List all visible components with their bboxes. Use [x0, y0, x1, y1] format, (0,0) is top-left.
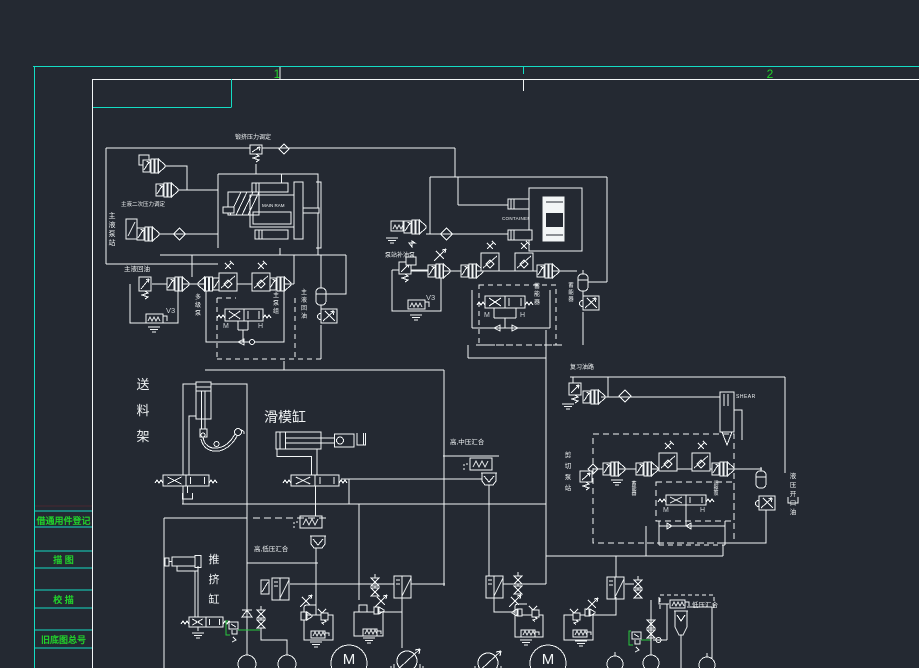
x-valve small XVa: [261, 580, 269, 594]
DV_E port right: [316, 449, 318, 475]
table row line 4: [35, 567, 92, 569]
svg-text:2: 2: [767, 67, 774, 81]
wire press down left: [279, 248, 281, 255]
svg-text:M: M: [663, 507, 669, 514]
big box C top: [430, 176, 607, 178]
wire y396: [601, 396, 720, 398]
svg-text:蓄: 蓄: [568, 281, 574, 289]
cross arrow above P9: [436, 251, 444, 259]
zone tick white below frame: [523, 79, 525, 91]
double box F5: [607, 577, 624, 599]
svg-text:液: 液: [301, 296, 307, 304]
wire x359: [358, 504, 360, 600]
accumulator AC2: [578, 270, 588, 291]
pump P1: [139, 155, 165, 173]
wire y563: [247, 562, 318, 564]
strainer low: [674, 611, 688, 635]
svg-text:器: 器: [631, 491, 636, 497]
svg-text:站: 站: [109, 238, 116, 247]
title box bottom edge (cyan): [93, 107, 232, 109]
box B4: [515, 615, 543, 637]
dashed y518: [253, 517, 327, 519]
svg-text:泵: 泵: [565, 473, 572, 481]
B3 cross arrow: [377, 597, 385, 605]
flow arrow B1: [494, 325, 500, 331]
tank sym right: [788, 497, 798, 503]
container box: [529, 188, 582, 251]
svg-text:M: M: [343, 651, 356, 668]
table dim fold mark: [35, 505, 92, 507]
svg-text:压: 压: [790, 481, 797, 489]
svg-text:料: 料: [136, 403, 149, 418]
slide clamp circle: [337, 437, 344, 444]
solenoid SW4: [311, 631, 329, 638]
svg-text:多: 多: [195, 293, 201, 301]
wire right x785: [784, 377, 786, 473]
svg-text:推: 推: [209, 552, 220, 566]
double box F2: [272, 578, 289, 600]
svg-text:泵: 泵: [195, 310, 201, 317]
flow arrow on return: [238, 339, 244, 345]
feeder arm joint: [214, 442, 219, 447]
svg-text:旧底图总号: 旧底图总号: [41, 634, 86, 645]
wire P1 out: [165, 166, 187, 190]
feeder arm: [203, 434, 235, 448]
svg-text:缸: 缸: [209, 592, 220, 606]
DV_C stub: [685, 505, 687, 526]
inner box bottom dashed: [659, 544, 725, 546]
shear stripes: [723, 394, 725, 406]
flow circle on return: [250, 340, 255, 345]
table row line 8: [35, 647, 92, 649]
wire y556 long: [546, 555, 723, 557]
press platen: [294, 182, 303, 239]
solid y518: [164, 517, 247, 519]
directional valve DV_B: [477, 296, 533, 308]
green symbol G1: [226, 621, 238, 642]
svg-text:主液回油: 主液回油: [124, 264, 150, 273]
svg-text:泵: 泵: [713, 491, 718, 497]
svg-text:站: 站: [565, 483, 572, 492]
pump circle PC2: [278, 655, 296, 668]
pump P15: [712, 462, 734, 476]
cyan outer border top: [33, 66, 919, 68]
dashed bottom y345: [476, 344, 563, 346]
shear blade: [722, 432, 732, 445]
DV_D tank: [183, 493, 193, 499]
wire bottom y264: [106, 263, 218, 265]
variable pump VP1: [391, 649, 423, 668]
wire x402 down: [401, 598, 403, 648]
wire inner y526: [659, 525, 725, 527]
press main ram: [250, 195, 294, 227]
feeder port wire: [189, 416, 196, 476]
ground B2: [310, 641, 322, 643]
ground under SW3: [410, 314, 422, 316]
wire press down right: [317, 248, 319, 255]
flow arrows inner box: [667, 523, 691, 529]
ground C1: [562, 403, 574, 405]
push cyl cap: [195, 556, 201, 568]
svg-text:开: 开: [790, 490, 797, 498]
svg-text:蓄: 蓄: [534, 282, 540, 290]
ground B1: [386, 237, 398, 239]
svg-text:主: 主: [109, 211, 116, 220]
wire x349 drop: [348, 479, 350, 504]
wire P2 out: [178, 189, 218, 191]
box B3: [354, 612, 383, 636]
feeder clevis pin: [201, 433, 205, 437]
x-pair XP2: [371, 574, 379, 596]
svg-text:主: 主: [273, 291, 279, 299]
pump circle PC4: [699, 657, 715, 668]
press upper cyl stripes: [255, 183, 257, 192]
B4 cross arrow: [511, 597, 519, 605]
lower ram cylinder: [508, 230, 532, 240]
svg-text:器: 器: [568, 296, 574, 303]
dashed box C outer: [593, 434, 734, 543]
feeder cylinder: [196, 382, 211, 419]
zone tick cyan: [523, 67, 525, 74]
check diamond D2: [174, 228, 186, 240]
pump circle PC5: [607, 656, 623, 668]
feeder arm lower: [201, 436, 237, 451]
push cyl rod: [167, 561, 172, 563]
solenoid valve SW1: [146, 314, 167, 323]
press stem: [303, 208, 319, 213]
x-pair XP4: [634, 576, 642, 598]
wire bus y284: [152, 283, 294, 285]
wire x723 up: [722, 545, 724, 556]
double box F4: [486, 576, 503, 598]
inner box right: [724, 521, 726, 545]
wire x458 down: [457, 177, 459, 205]
B5 mini pump: [585, 609, 589, 616]
svg-text:液: 液: [790, 471, 797, 480]
wire bus y271: [411, 270, 577, 272]
x-valve XV3: [756, 496, 776, 510]
throttle T4: [692, 441, 710, 471]
B5 cross arrow: [588, 600, 596, 608]
x-valve XV2: [580, 296, 600, 310]
svg-text:M: M: [223, 323, 229, 330]
big box C right: [606, 177, 608, 282]
B2 mini pump: [301, 612, 306, 620]
table row line 2: [35, 526, 92, 528]
wire B3-F3col: [383, 611, 402, 613]
B4 funnel valve: [529, 606, 537, 610]
svg-text:锻挤压力调定: 锻挤压力调定: [235, 133, 271, 141]
wire x712 down: [711, 607, 713, 668]
push cyl bracket: [177, 566, 198, 617]
solid return box: [206, 288, 284, 342]
container line bottom: [546, 234, 563, 236]
relief valve RV1: [250, 145, 262, 162]
slide rod: [286, 437, 334, 439]
svg-text:送: 送: [136, 377, 149, 392]
press die hatch: [228, 192, 259, 215]
motor M2: [522, 645, 574, 668]
wire x667: [667, 604, 669, 640]
wire x247 long: [246, 504, 248, 656]
svg-text:能: 能: [534, 290, 540, 298]
press rod: [223, 207, 234, 213]
svg-text:回: 回: [301, 305, 307, 312]
x-valve XV1: [318, 309, 338, 323]
feeder piston rod: [201, 391, 203, 429]
wire solW left hook: [659, 597, 669, 604]
wire F4 to B4: [494, 597, 515, 612]
svg-text:高,低压汇合: 高,低压汇合: [254, 544, 289, 553]
ground DV_F: [192, 632, 204, 634]
press lower cyl stripes: [258, 230, 260, 239]
svg-text:M: M: [542, 651, 555, 668]
wire x651: [650, 600, 652, 655]
B2 loop wire: [304, 605, 316, 614]
table row line 5: [35, 589, 92, 591]
relief valve RV3: [399, 262, 411, 282]
check diamond D4: [619, 390, 631, 402]
solW low: [670, 600, 689, 608]
wire x546 down: [545, 504, 547, 584]
pump P4: [167, 277, 189, 291]
wire P3 out: [159, 233, 218, 235]
container line top: [546, 201, 563, 203]
solid return box B: [472, 290, 550, 328]
svg-text:H: H: [258, 323, 263, 330]
wire bus y469: [593, 468, 762, 470]
svg-text:剪: 剪: [565, 450, 572, 459]
slide hook: [357, 433, 366, 445]
DV_A stubs: [238, 321, 248, 342]
svg-text:复习油路: 复习油路: [570, 363, 594, 371]
green wire 2: [641, 639, 651, 641]
filter FX2: [252, 261, 270, 291]
wire y640 link: [653, 639, 667, 641]
pump P11: [537, 264, 559, 278]
svg-text:泵: 泵: [273, 300, 279, 307]
pump P5: [198, 277, 220, 291]
shear cylinder: [720, 392, 734, 432]
pump P6: [269, 277, 291, 291]
group box left stub: [191, 255, 193, 277]
box B2: [304, 615, 333, 640]
motor M1: [323, 645, 375, 668]
pump P9: [428, 264, 450, 278]
svg-text:器: 器: [534, 299, 540, 306]
feeder box E: [183, 384, 247, 504]
svg-text:低压汇合: 低压汇合: [692, 600, 719, 609]
diamond on x247: [242, 610, 252, 617]
throttle T2: [515, 241, 533, 271]
box B5: [564, 615, 593, 640]
svg-text:级: 级: [195, 301, 201, 309]
wire x680 down: [680, 635, 682, 668]
svg-text:液: 液: [109, 220, 116, 229]
wire y479 from valve: [341, 478, 482, 480]
relief valve RV2: [139, 277, 151, 299]
wire XV2 down: [582, 312, 584, 345]
B5 funnel valve: [570, 609, 578, 613]
solenoid SW5: [363, 629, 381, 636]
wire x316 seg: [315, 548, 317, 615]
wire P8 stub: [409, 241, 415, 247]
svg-text:油: 油: [790, 507, 797, 516]
wire y456: [443, 455, 499, 457]
green symbol G2: [629, 631, 641, 652]
svg-text:挤: 挤: [209, 572, 220, 586]
feeder cyl stripes: [196, 386, 211, 388]
svg-text:滑模缸: 滑模缸: [264, 409, 306, 425]
wire left edge x106: [105, 148, 107, 264]
flow arrow B2: [512, 325, 518, 331]
solenoid SW6: [521, 630, 539, 637]
B2 funnel valve: [318, 609, 326, 613]
press upper cylinder: [252, 183, 288, 192]
wire F5 to B5: [593, 597, 616, 615]
pump P14: [636, 462, 658, 476]
DV_E stub down: [315, 486, 317, 516]
solenoid SW7: [573, 630, 591, 637]
seq valve SQ1: [294, 516, 322, 528]
dashed box C inner: [656, 482, 734, 521]
wire x492: [488, 503, 490, 576]
directional valve DV_C: [658, 495, 714, 505]
B4 loop wire: [515, 604, 527, 614]
bottom box left x164: [163, 518, 165, 668]
white frame top: [92, 79, 919, 81]
svg-text:主液二次压力调定: 主液二次压力调定: [121, 200, 166, 208]
wire x646 drop: [645, 526, 647, 556]
svg-text:高,中压汇合: 高,中压汇合: [450, 437, 485, 446]
pump P10: [461, 264, 483, 278]
wire y358: [468, 357, 546, 359]
svg-text:描 图: 描 图: [53, 554, 74, 565]
container slot: [546, 213, 563, 227]
filter FX1: [219, 261, 237, 291]
white frame left: [92, 79, 94, 668]
svg-text:主: 主: [301, 288, 307, 296]
wire x444 down: [443, 370, 445, 586]
wire AC2-XV2: [582, 291, 584, 296]
table row line 6: [35, 607, 92, 609]
cyan outer border left: [34, 66, 36, 668]
wire F5 link: [625, 583, 634, 585]
wire x455 down: [454, 148, 456, 177]
wire top y377: [570, 376, 785, 378]
pump circle PC3: [643, 655, 659, 668]
B2 cross arrow: [302, 597, 310, 605]
feeder clevis: [200, 429, 207, 437]
press lower cylinder: [255, 230, 288, 239]
upper ram cylinder: [508, 199, 532, 209]
ground under SW1: [148, 326, 160, 328]
wire RV1 down: [255, 164, 257, 174]
big box C left: [429, 177, 431, 234]
feeder arm hook: [241, 430, 244, 434]
wire RV4: [572, 377, 574, 383]
svg-text:切: 切: [565, 462, 572, 470]
wire shear right: [734, 410, 742, 440]
slide cylinder: [276, 432, 321, 449]
wire x468: [467, 345, 469, 358]
ground B4: [520, 639, 532, 641]
V3 box 2: [392, 270, 441, 311]
wire x346 loop: [321, 255, 346, 294]
svg-text:H: H: [520, 312, 525, 319]
wire XV3 down: [723, 510, 766, 543]
table row line 1: [35, 510, 92, 512]
table row line 7: [35, 629, 92, 631]
solenoid SW2: [391, 221, 407, 231]
variable pump VP2: [472, 651, 504, 668]
inner box left: [658, 521, 660, 545]
pump circle PC1: [238, 655, 256, 668]
svg-text:油: 油: [301, 312, 307, 320]
press housing right: [316, 182, 321, 248]
wire box C to AC2: [583, 281, 607, 283]
svg-text:组: 组: [273, 307, 279, 315]
DV_B stubs: [494, 308, 516, 328]
DV_F stub: [197, 627, 199, 631]
reducing valve RD1 arrow: [128, 222, 135, 236]
double box F3: [394, 576, 411, 598]
svg-text:校 描: 校 描: [53, 594, 74, 605]
svg-text:M: M: [484, 312, 490, 319]
pump P3: [137, 227, 159, 241]
x-pair XP1: [257, 606, 265, 628]
check diamond D3: [441, 228, 453, 240]
container block white: [543, 197, 564, 241]
V3 box (left): [130, 284, 178, 323]
wire y607: [687, 606, 712, 608]
table row line 3: [35, 550, 92, 552]
dashed manifold box B: [479, 285, 556, 345]
svg-text:能: 能: [568, 288, 574, 296]
wire x284 tick: [283, 361, 285, 370]
dashed box A: [217, 298, 321, 359]
wire y584: [290, 583, 445, 585]
zone tick white at 1: [279, 67, 281, 79]
wire x294 tick: [293, 255, 295, 284]
wire y504 long: [182, 503, 546, 505]
B3 square: [359, 605, 367, 612]
throttle T1: [481, 241, 499, 271]
wire group top y255: [160, 254, 346, 256]
svg-text:H: H: [700, 507, 705, 514]
wire x546 up: [545, 330, 547, 504]
wire top bus y148: [106, 147, 455, 149]
solenoid SW3: [408, 300, 429, 309]
svg-text:SHEAR: SHEAR: [736, 394, 756, 400]
x-pair XP5: [647, 616, 655, 638]
wire FN2 down: [488, 485, 490, 503]
check diamond D5: [588, 464, 598, 474]
directional valve DV_A: [217, 309, 271, 321]
ground B5: [575, 640, 587, 642]
press box top tick: [281, 174, 283, 183]
relief valve RV4: [569, 383, 581, 403]
B4 mini pump: [512, 609, 517, 616]
pump P2: [156, 183, 178, 197]
reducing valve RD1: [126, 219, 137, 239]
svg-text:架: 架: [136, 429, 149, 444]
dashed frame 低压: [660, 595, 714, 609]
press box B: [218, 174, 318, 248]
wire y205 to ram: [458, 204, 508, 206]
throttle T3: [659, 441, 677, 471]
ground under P13: [611, 479, 623, 481]
